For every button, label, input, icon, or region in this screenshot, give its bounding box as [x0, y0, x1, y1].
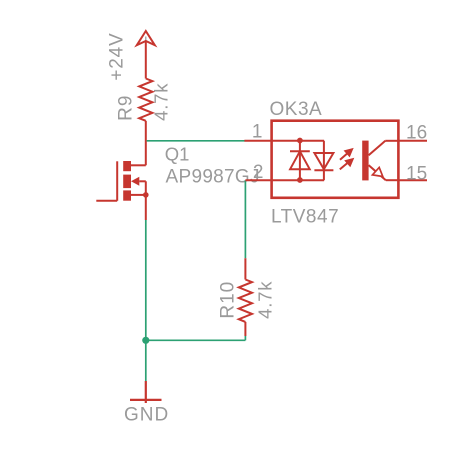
junction dot bottom (opto)	[297, 177, 303, 183]
wire junction to GND (green)	[145, 340, 147, 381]
wire opto pin2 down to R10 (green)	[244, 180, 246, 258]
LED D2 (right, pointing down)	[314, 141, 333, 180]
svg-text:2: 2	[253, 162, 264, 183]
phototransistor (opto output)	[362, 141, 398, 181]
svg-text:GND: GND	[124, 405, 169, 426]
junction dot top (opto)	[297, 138, 303, 144]
pin 15 lead	[398, 179, 427, 181]
resistor R9	[139, 79, 152, 121]
svg-text:Q1: Q1	[165, 144, 190, 165]
power +24V supply arrow symbol	[137, 31, 155, 79]
wire R9 bottom to Q1 drain	[145, 121, 147, 166]
svg-text:R10: R10	[218, 281, 239, 319]
svg-text:OK3A: OK3A	[270, 99, 323, 120]
svg-text:4.7k: 4.7k	[151, 83, 172, 121]
wire net from drain to opto pin 1 (green)	[147, 140, 245, 142]
wire junction to R10 bottom (green)	[146, 339, 246, 341]
svg-text:LTV847: LTV847	[271, 207, 339, 228]
label R10	[218, 281, 239, 319]
svg-text:1: 1	[252, 121, 263, 142]
svg-text:+24V: +24V	[106, 33, 127, 81]
opto internal bottom rail	[272, 179, 324, 181]
optocoupler OK3A box	[272, 121, 399, 198]
ground GND symbol	[130, 381, 162, 403]
transistor Q1 (N-MOSFET)	[96, 161, 148, 220]
svg-text:15: 15	[406, 164, 427, 185]
opto internal top rail	[272, 140, 324, 142]
wire R10 bottom elbow (green)	[244, 336, 246, 340]
light emission arrow 2	[340, 159, 353, 169]
svg-text:4.7k: 4.7k	[255, 281, 276, 319]
supply pin stub (gray)	[145, 37, 147, 42]
light emission arrow 1	[340, 149, 352, 160]
label R9	[116, 95, 137, 121]
pin 2 lead	[245, 179, 271, 181]
svg-text:R9: R9	[116, 95, 137, 121]
svg-text:16: 16	[406, 123, 427, 144]
pin 16 lead	[398, 140, 427, 142]
wire Q1 source down (green)	[145, 220, 147, 340]
pin 1 lead	[244, 140, 271, 142]
value 4.7k (R9)	[151, 83, 172, 121]
resistor R10	[239, 258, 252, 336]
LED D1 (left, pointing up)	[290, 140, 310, 180]
net label +24V	[106, 33, 127, 81]
value 4.7k (R10)	[255, 281, 276, 319]
junction dot	[142, 337, 149, 344]
